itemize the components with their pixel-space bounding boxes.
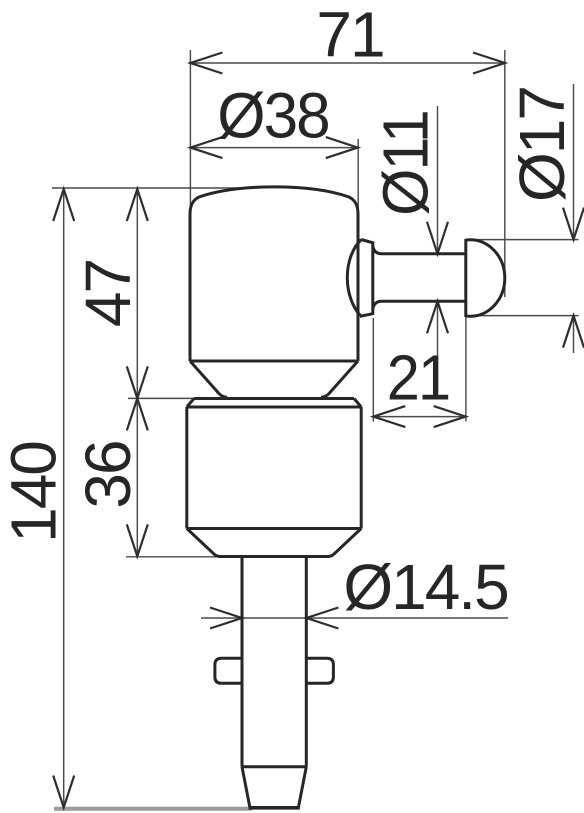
lower section top edge: [194, 397, 354, 400]
lower section sides: [185, 407, 188, 529]
svg-text:71: 71: [316, 0, 383, 71]
dimension 21 line: [373, 416, 465, 418]
wire D17 top extension: [470, 239, 579, 241]
ground baseline grey: [54, 807, 252, 811]
dimension 71 line: [190, 62, 505, 64]
svg-text:Ø11: Ø11: [370, 111, 442, 216]
dimension D11 line: [437, 106, 439, 254]
body upper bottom edge: [190, 360, 358, 363]
lower section chamfers: [187, 399, 194, 408]
wire right vertical extension x=358 (D38 right): [357, 139, 359, 212]
wire left vertical extension x=190 (71 and D38 left): [189, 50, 191, 213]
tip bottom edge: [249, 806, 300, 810]
dimension D14.5 line: [201, 617, 508, 619]
shaft tab left: [215, 658, 242, 683]
stud collar: [360, 240, 373, 317]
wire D17 bottom extension: [474, 315, 579, 317]
wire 21 right extension: [465, 317, 467, 422]
svg-text:47: 47: [72, 260, 144, 327]
body upper cylinder outline: [190, 187, 358, 361]
wire bottom extension line of 36 at y=557: [126, 556, 218, 558]
shaft tab right: [306, 658, 333, 683]
dimension D17 line: [573, 84, 575, 238]
wire mid extension line at y=398 (47/36 junction): [128, 397, 195, 399]
dimension D38 line: [190, 147, 357, 149]
svg-text:140: 140: [0, 442, 70, 543]
svg-text:Ø38: Ø38: [217, 81, 328, 152]
wire top extension line at y=188: [52, 187, 258, 189]
neck taper right: [321, 361, 358, 397]
shaft sides: [241, 557, 244, 767]
svg-text:Ø17: Ø17: [506, 87, 578, 202]
stud intersection arc: [347, 240, 361, 316]
lower taper: [187, 529, 361, 557]
lower section bottom edge: [187, 527, 361, 530]
stud stem top: [373, 247, 466, 254]
svg-text:36: 36: [72, 441, 144, 508]
tip cross line: [242, 765, 306, 768]
svg-text:Ø14.5: Ø14.5: [343, 551, 507, 623]
stud stem bottom: [373, 301, 466, 308]
dimension 47/36 line: [136, 189, 138, 556]
dimension 140 line: [63, 189, 65, 808]
svg-text:21: 21: [387, 343, 449, 414]
tip taper: [242, 767, 250, 807]
neck taper left: [190, 361, 227, 397]
ball: [466, 240, 505, 317]
wire right vertical extension x=505 (71 right): [504, 50, 506, 297]
wire 21 left extension: [372, 318, 374, 422]
